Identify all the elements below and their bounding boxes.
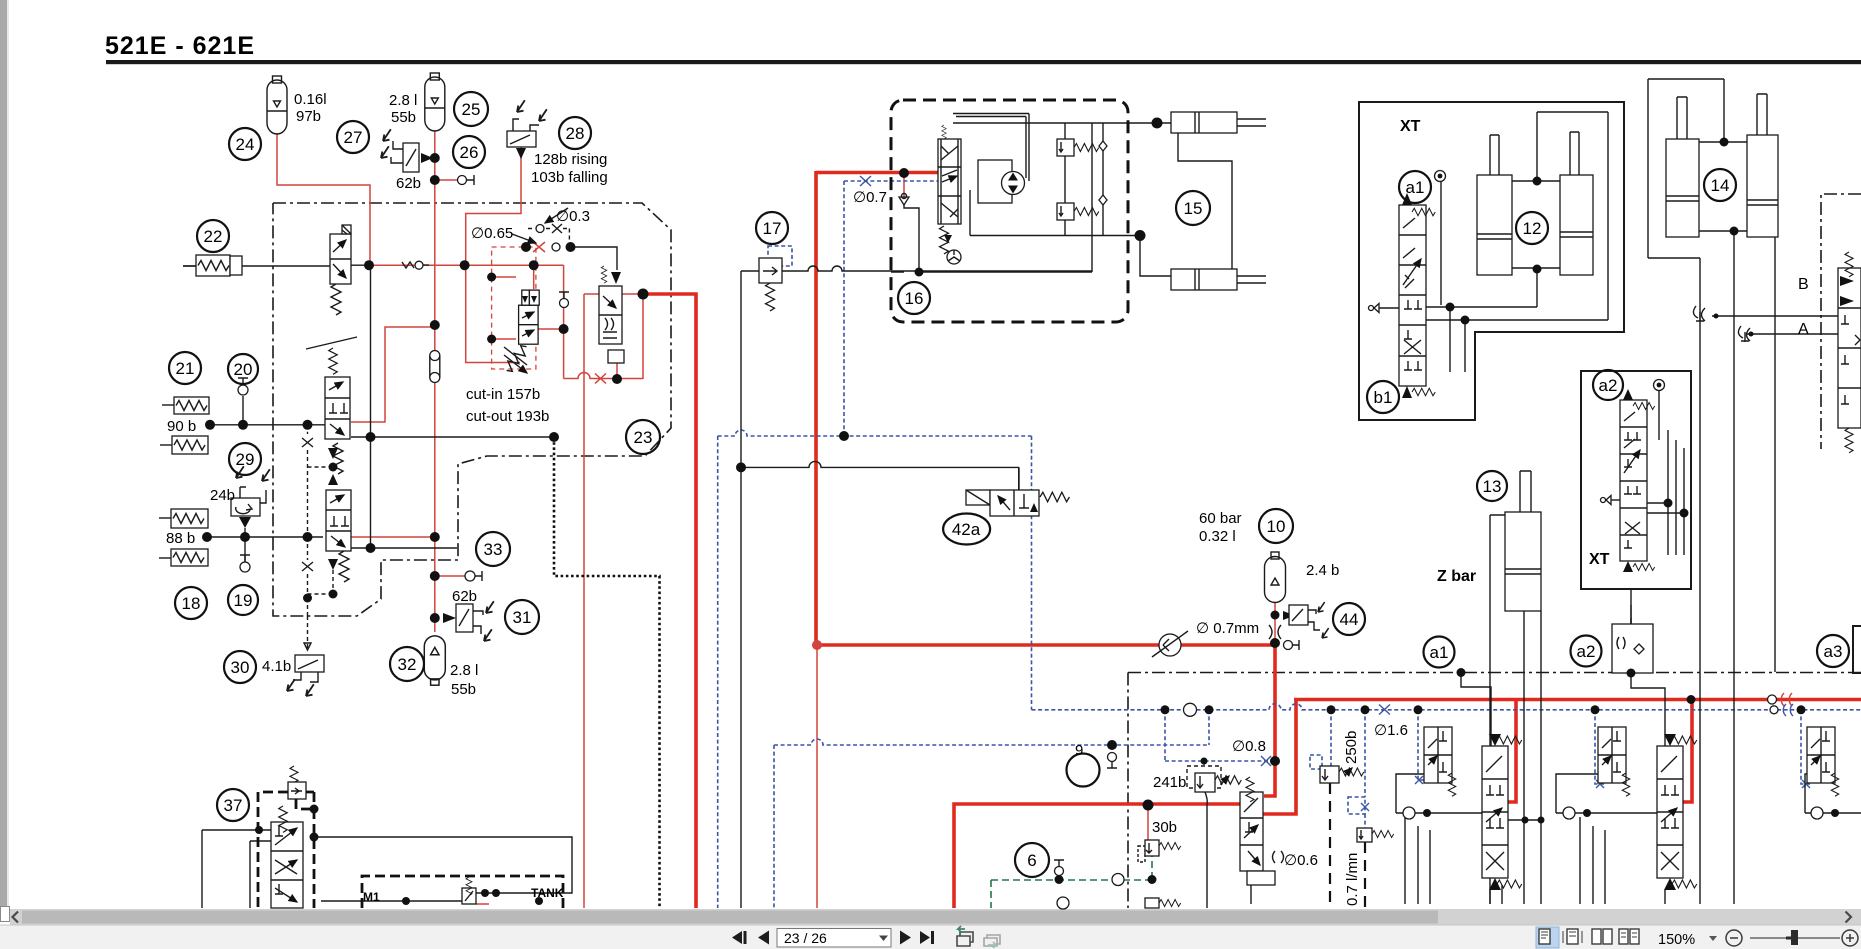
wire red unloader outlet y329	[538, 328, 564, 330]
long dashed drain 250b	[1329, 783, 1331, 908]
callout circle 16	[898, 282, 930, 314]
restrictor X blue 0.8	[1261, 756, 1271, 766]
svg-text:a3: a3	[1824, 642, 1843, 661]
wire red brake valve upper outlet	[351, 327, 435, 422]
callout circle 28	[559, 117, 591, 149]
dash-dot pump enclosure left edge	[1127, 673, 1129, 909]
wire red relief drain riser x617	[616, 362, 618, 379]
XT1 joystick valve	[1399, 193, 1435, 398]
hose symbols B/A	[1693, 306, 1750, 342]
node blue y745 tap	[1107, 740, 1117, 750]
wire red 26 test branch	[435, 179, 458, 181]
wire blue section a1 pilot branch	[1418, 710, 1426, 780]
red orifice X at relief drain	[595, 374, 606, 384]
svg-text:23 / 26: 23 / 26	[784, 930, 827, 946]
XT1 left check port	[1369, 304, 1400, 313]
wire blue orifice 0.8 line y761	[1165, 760, 1271, 762]
wire 241b drain	[1205, 792, 1207, 908]
callout circle 23	[626, 420, 660, 454]
svg-text:∅0.65: ∅0.65	[471, 225, 513, 242]
svg-text:12: 12	[1523, 219, 1542, 238]
cylinder switch 22	[183, 255, 242, 276]
callout circle 21	[169, 352, 201, 384]
wire blue y181 into steering unit	[844, 180, 938, 182]
check valve to 44	[1283, 611, 1295, 620]
XT2 left check port	[1601, 496, 1621, 505]
wire a1 spool to Z bar cylinder	[1508, 819, 1541, 821]
svg-text:20: 20	[234, 360, 253, 379]
callout circle 32	[390, 647, 424, 681]
svg-text:19: 19	[234, 591, 253, 610]
restrictor X red cut-in orifice	[533, 242, 545, 252]
cylinder 12 left	[1477, 135, 1512, 275]
svg-text:42a: 42a	[952, 520, 981, 539]
node blue orifice line on red	[1270, 756, 1280, 766]
red coupler symbol on supply rail	[1768, 695, 1777, 704]
wire XT1 valve port B	[1426, 112, 1608, 320]
callout circle 44	[1333, 603, 1365, 635]
node green 30b	[1148, 875, 1157, 884]
XT box 2 outline	[1581, 371, 1691, 589]
left scrollbar strip	[0, 0, 7, 906]
wire blue x774 drop	[773, 745, 775, 908]
svg-text:a1: a1	[1406, 178, 1425, 197]
relief valve 241b	[1187, 766, 1241, 792]
svg-text:∅0.3: ∅0.3	[556, 208, 590, 225]
restrictor x blue a2	[1596, 780, 1604, 788]
wire red M1 stub	[476, 903, 489, 905]
wire red 30b drop	[1147, 805, 1149, 840]
charge relief lower in box16	[1057, 203, 1099, 220]
wire inlet valve drain	[1250, 885, 1252, 904]
wire red relief loop x643	[642, 294, 644, 379]
wire A line	[1747, 333, 1838, 335]
test point 20	[238, 378, 248, 395]
wire a2 makeup top port	[1630, 605, 1632, 624]
pressure switch 27	[381, 129, 433, 172]
wire a1 makeup to spool	[1461, 673, 1491, 747]
callout circle 18	[175, 587, 207, 619]
svg-text:cut-in 157b: cut-in 157b	[466, 386, 540, 403]
wire XT1 valve port A	[1426, 269, 1537, 307]
callout circle a3	[1817, 635, 1849, 667]
svg-text:XT: XT	[1589, 551, 1610, 568]
svg-text:30: 30	[231, 658, 250, 677]
spring plug 90b lower	[160, 436, 208, 454]
wire thin red x817 drain down	[816, 645, 818, 908]
svg-text:18: 18	[182, 594, 201, 613]
steering priority check in box16	[899, 194, 909, 206]
wire green supply riser x991	[990, 880, 992, 908]
callout circle 30	[224, 651, 256, 683]
section a2 main spool	[1657, 734, 1697, 890]
restrictor X blue LS rail	[1379, 705, 1390, 715]
wire a2 section service lines	[1580, 817, 1665, 904]
spring plug 88b upper	[159, 509, 208, 528]
wire black cutin to relief pilot	[571, 247, 618, 270]
svg-text:0.32 l: 0.32 l	[1199, 528, 1236, 545]
svg-text:TANK: TANK	[531, 886, 564, 900]
right edge valve B/A	[1838, 252, 1861, 453]
makeup check a2	[1612, 618, 1653, 673]
svg-text:24: 24	[236, 135, 255, 154]
check diamond lower	[1099, 195, 1107, 205]
wire cyl15 upper crossover	[1178, 133, 1232, 269]
wire tank line y437	[351, 436, 554, 438]
valve bottom 30b lower	[1145, 898, 1181, 908]
svg-text:cut-out 193b: cut-out 193b	[466, 408, 549, 425]
wire blue 250b branch x1331	[1330, 710, 1332, 766]
XT2 joystick valve	[1620, 389, 1655, 572]
svg-text:A: A	[1798, 321, 1809, 338]
callout circle a1 XT	[1399, 171, 1431, 203]
svg-text:97b: 97b	[296, 108, 321, 125]
svg-text:26: 26	[460, 143, 479, 162]
callout circle 13	[1477, 471, 1507, 501]
wire thick red brake line y645	[817, 643, 1275, 647]
node blue 241b tap	[1201, 758, 1208, 765]
callout circle 20	[228, 354, 258, 384]
callout circle 6	[1015, 843, 1049, 877]
wire blue lower pilot run y745 with hop	[774, 739, 1209, 745]
wire thick red main supply rail y699.5	[1294, 698, 1861, 702]
pressure switch 31	[443, 601, 494, 641]
wire valve17 ports	[741, 266, 1092, 271]
wire 42a supply y467 with hop	[741, 461, 1019, 490]
svg-text:2.8 l: 2.8 l	[450, 662, 478, 679]
M1 TANK dashed enclosure	[362, 876, 563, 908]
svg-text:28: 28	[566, 124, 585, 143]
wire B line	[1712, 315, 1838, 317]
XT1 target port	[1435, 171, 1446, 182]
wire thick red supply from transmission pump	[816, 171, 938, 175]
pressure switch 30	[287, 655, 324, 696]
wire blue 1365 branch	[1364, 710, 1366, 828]
test point on x564	[559, 292, 569, 308]
relief valve 1365	[1357, 828, 1394, 842]
wire cyl12 links	[1512, 181, 1560, 268]
pump housing and motor 16	[978, 160, 1025, 203]
horizontal scrollbar track	[10, 909, 1861, 925]
svg-text:13: 13	[1483, 477, 1502, 496]
svg-text:23: 23	[634, 428, 653, 447]
svg-text:∅ 0.7mm: ∅ 0.7mm	[1196, 620, 1259, 637]
blue pilot jog 250b	[1310, 755, 1322, 769]
node blue 1209	[1205, 705, 1214, 714]
wire valve22 to pilot valve	[183, 265, 330, 267]
callout circle 24	[229, 128, 261, 160]
svg-text:∅0.6: ∅0.6	[1284, 852, 1318, 869]
wire XT1 a1 target drop	[1440, 182, 1442, 305]
wire box16 y123	[953, 122, 1171, 124]
section a2 pilot valve	[1598, 727, 1630, 796]
section a1 load check	[1403, 807, 1431, 819]
wire red relief left y294	[584, 293, 643, 295]
node blue 1801	[1797, 705, 1806, 714]
corner box	[1, 907, 10, 922]
wire thick red pump riser x954	[954, 804, 1240, 908]
main relief valve	[599, 266, 624, 363]
svg-text:521E - 621E: 521E - 621E	[105, 32, 255, 60]
unloader valve cut-in	[503, 265, 539, 373]
test circle on Ø0.3 line	[536, 225, 544, 233]
spring between brake valves	[328, 443, 343, 485]
cylinder 15 lower	[1171, 269, 1266, 290]
wire red steering priority feed in box16	[903, 173, 905, 197]
blue pilot jog 1365	[1348, 797, 1365, 814]
wire red x563.6	[563, 265, 565, 378]
svg-text:31: 31	[513, 608, 532, 627]
wire red 88b valve line y537	[351, 536, 435, 538]
wire red x584 long drain	[583, 294, 585, 908]
wire blue steer pilot drop x844	[843, 181, 845, 436]
wire a1 load check line	[1396, 774, 1482, 813]
svg-text:14: 14	[1711, 176, 1730, 195]
svg-text:9: 9	[1075, 742, 1083, 759]
svg-text:15: 15	[1184, 199, 1203, 218]
svg-text:250b: 250b	[1343, 731, 1360, 764]
svg-text:90 b: 90 b	[167, 418, 196, 435]
box 16 dashed enclosure	[891, 100, 1128, 322]
wire a3 load check line	[1805, 774, 1861, 813]
bottom toolbar	[0, 925, 1861, 949]
unloader pilot dashed red box	[492, 247, 536, 369]
svg-text:55b: 55b	[451, 681, 476, 698]
wire blue 241b tap	[1203, 761, 1205, 767]
section a1 main spool	[1482, 734, 1522, 890]
wire blue section a2 pilot branch	[1595, 710, 1606, 784]
check valve 24b	[231, 466, 270, 528]
callout circle 15	[1176, 191, 1210, 225]
long dashed drain 1365	[1364, 842, 1366, 908]
wire XT2 internal verticals	[1668, 430, 1684, 555]
callout circle 17	[756, 212, 788, 244]
wire a2 makeup to spool	[1631, 673, 1665, 746]
callout circle 12	[1516, 212, 1548, 244]
wire y548	[351, 547, 457, 549]
restrictor check on red y265	[402, 261, 429, 269]
wire thick red vertical x816	[814, 171, 818, 645]
wire blue section a3 pilot branch	[1801, 710, 1812, 784]
spring plug 88b lower	[159, 549, 208, 566]
callout circle a2 XT	[1593, 370, 1623, 400]
wire 42a solenoid supply corner	[1018, 468, 1020, 490]
callout circle 31	[505, 600, 539, 634]
section a2 load check	[1563, 807, 1591, 819]
right toolbar	[1536, 927, 1559, 948]
wire box16 feedback double line	[953, 114, 1029, 117]
cylinder 14 right	[1747, 94, 1778, 237]
callout circle b1	[1367, 381, 1399, 413]
wire red accumulator 24 drop	[277, 134, 370, 264]
wire box16 y235	[970, 190, 1140, 236]
svg-text:b1: b1	[1374, 388, 1393, 407]
svg-text:2.8 l: 2.8 l	[389, 92, 417, 109]
inlet spool valve	[1240, 777, 1284, 885]
svg-text:∅0.8: ∅0.8	[1232, 738, 1266, 755]
svg-text:M1: M1	[363, 890, 380, 904]
node blue 1366	[1361, 705, 1370, 714]
callout circle 19	[228, 585, 258, 615]
relief valve 17	[759, 246, 792, 311]
test point 26	[458, 175, 475, 185]
pressure switch 44	[1289, 602, 1329, 638]
callout circle 10	[1259, 509, 1293, 543]
wire green run y880	[991, 879, 1152, 881]
svg-text:4.1b: 4.1b	[262, 658, 291, 675]
charge relief upper in box16	[1057, 139, 1099, 156]
accumulator 10	[1265, 552, 1286, 603]
node red corner x817	[812, 640, 822, 650]
wire a1 section service lines	[1405, 815, 1502, 904]
svg-text:10: 10	[1267, 517, 1286, 536]
wire XT2 feed to makeup	[1630, 589, 1632, 624]
wire blue pilot left riser x717.7	[717, 436, 719, 908]
wire red main pilot line y265	[370, 264, 564, 266]
M1 small valve	[462, 877, 476, 904]
wire thick red branch section a2	[1682, 700, 1692, 803]
cylinder 14 left	[1666, 97, 1699, 237]
XT box 1 outline	[1359, 102, 1624, 420]
restrictor x blue a3	[1802, 780, 1810, 788]
check valve circle on LS rail	[1184, 703, 1197, 716]
wire XT1 stub drains	[1450, 307, 1465, 372]
wire blue x1031.5	[1031, 436, 1033, 710]
wire blue check branch x1209	[1208, 710, 1210, 745]
svg-text:128b rising: 128b rising	[534, 151, 607, 168]
spring plug 90b upper	[162, 397, 209, 414]
callout circle 27	[337, 121, 369, 153]
svg-text:21: 21	[176, 359, 195, 378]
dash-dot border right side fragment	[1821, 194, 1861, 449]
wire a2 load check line	[1556, 774, 1657, 813]
svg-text:103b falling: 103b falling	[531, 169, 608, 186]
restrictor X black Ø0.3	[552, 224, 562, 233]
wire cyl15 lower port	[1140, 236, 1171, 277]
wire M1 gallery	[321, 893, 563, 901]
wire pilot17 drain x741	[740, 271, 742, 908]
node blue 1595	[1591, 705, 1600, 714]
wire cyl14 right drop	[1774, 237, 1776, 672]
pilot valve by 22	[330, 225, 351, 315]
wire 37 feed left	[202, 830, 271, 908]
callout circle 9 big	[1067, 754, 1100, 787]
wire box16 x1065 relief chain	[1064, 123, 1066, 236]
svg-text:33: 33	[484, 540, 503, 559]
XT2 target port	[1654, 380, 1665, 441]
svg-text:16: 16	[905, 289, 924, 308]
svg-text:6: 6	[1027, 851, 1036, 870]
37 pilot dashed enclosure	[258, 792, 314, 908]
svg-text:B: B	[1798, 276, 1809, 293]
wire red accumulator 10 drop	[1274, 603, 1276, 645]
wire pilot valve right to red junction	[351, 264, 372, 266]
dash-dot enclosure box 23	[273, 203, 671, 616]
wire thick red relief to rail x696	[643, 294, 696, 908]
junction dots black	[202, 118, 1754, 906]
steering unit valve stack	[938, 125, 961, 264]
spring below lower brake valve	[328, 551, 349, 582]
main brake valve upper	[306, 337, 357, 439]
callout circle 33	[476, 532, 510, 566]
svg-text:0.16l: 0.16l	[294, 91, 327, 108]
relief valve 37 top	[288, 766, 306, 799]
restrictor x blue 1365	[1361, 803, 1369, 811]
restrictor X on dashed drain	[302, 438, 313, 571]
arrow line Ø0.65	[512, 234, 536, 243]
wire box16 x1092	[1091, 123, 1093, 272]
svg-text:62b: 62b	[396, 175, 421, 192]
solenoid valve 42a	[966, 490, 1069, 516]
wire black drain x370.5	[370, 265, 372, 548]
wire 29 dashed drain	[307, 425, 309, 434]
svg-text:∅0.7: ∅0.7	[853, 189, 887, 206]
svg-text:150%: 150%	[1658, 932, 1695, 948]
wire 88b gallery y537	[208, 536, 323, 538]
callout circle 29	[229, 443, 261, 475]
svg-text:44: 44	[1340, 610, 1359, 629]
svg-text:∅1.6: ∅1.6	[1374, 722, 1408, 739]
test circle lower	[1057, 897, 1069, 909]
callout circle a2	[1571, 636, 1602, 667]
bracket XT box right edge	[1853, 626, 1861, 673]
wire blue LS rail y709.8 with hops	[1032, 704, 1861, 710]
callout circle 22	[197, 220, 229, 252]
wire 20 drop	[242, 396, 244, 425]
check valve circle on brake line	[1152, 631, 1188, 657]
callout circle 25	[454, 92, 488, 126]
main brake valve lower	[326, 490, 351, 551]
relief valve 30b	[1138, 840, 1181, 862]
wire blue top run y436 with hop over x741	[718, 430, 1032, 436]
cylinder 13	[1505, 471, 1541, 611]
svg-text:88 b: 88 b	[166, 530, 195, 547]
wire 28 link dash Ø0.3	[528, 229, 569, 248]
wire box16 tank links	[891, 203, 1092, 272]
check valve circle on green	[1112, 874, 1124, 886]
svg-text:32: 32	[398, 655, 417, 674]
svg-text:30b: 30b	[1152, 819, 1177, 836]
svg-text:60 bar: 60 bar	[1199, 510, 1242, 527]
wire cyl14 lower link	[1699, 231, 1747, 904]
test point 33	[465, 571, 482, 581]
blue coupler symbol on LS rail	[1770, 706, 1778, 714]
svg-text:a2: a2	[1599, 376, 1618, 395]
wire green riser to 30b	[1151, 856, 1153, 879]
svg-text:XT: XT	[1400, 118, 1421, 135]
svg-text:Z bar: Z bar	[1437, 568, 1476, 585]
restrictor X on blue y181	[860, 176, 871, 186]
svg-text:a2: a2	[1577, 642, 1596, 661]
cylinder 15 upper	[1171, 112, 1266, 133]
svg-text:17: 17	[763, 219, 782, 238]
wire box16 x1103	[1102, 123, 1104, 236]
section a3 load check	[1811, 807, 1839, 819]
heavy dotted tank header	[554, 437, 660, 908]
wire thick red x1275 down to inlet valve	[1264, 645, 1275, 796]
test point above green	[1054, 860, 1064, 876]
section a3 pilot valve	[1807, 727, 1839, 796]
svg-text:27: 27	[344, 128, 363, 147]
svg-text:55b: 55b	[391, 109, 416, 126]
svg-text:62b: 62b	[452, 588, 477, 605]
callout circle 37	[217, 789, 249, 821]
svg-text:2.4 b: 2.4 b	[1306, 562, 1339, 579]
node blue 1331	[1327, 705, 1336, 714]
orifice capsule on x434.8	[430, 351, 440, 383]
accumulator 25	[425, 73, 445, 131]
callout circle 14	[1704, 169, 1736, 201]
